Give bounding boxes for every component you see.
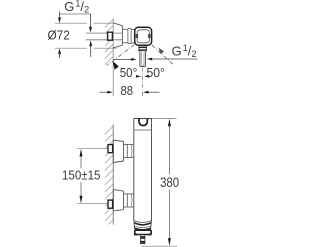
svg-text:Ø72: Ø72 [48,27,70,42]
svg-text:G1/2: G1/2 [64,0,89,15]
svg-text:50°: 50° [120,65,138,80]
svg-text:G1/2: G1/2 [172,43,197,59]
svg-text:88: 88 [121,83,134,98]
svg-text:380: 380 [160,175,179,190]
svg-text:50°: 50° [146,65,165,80]
svg-text:150±15: 150±15 [62,169,100,183]
